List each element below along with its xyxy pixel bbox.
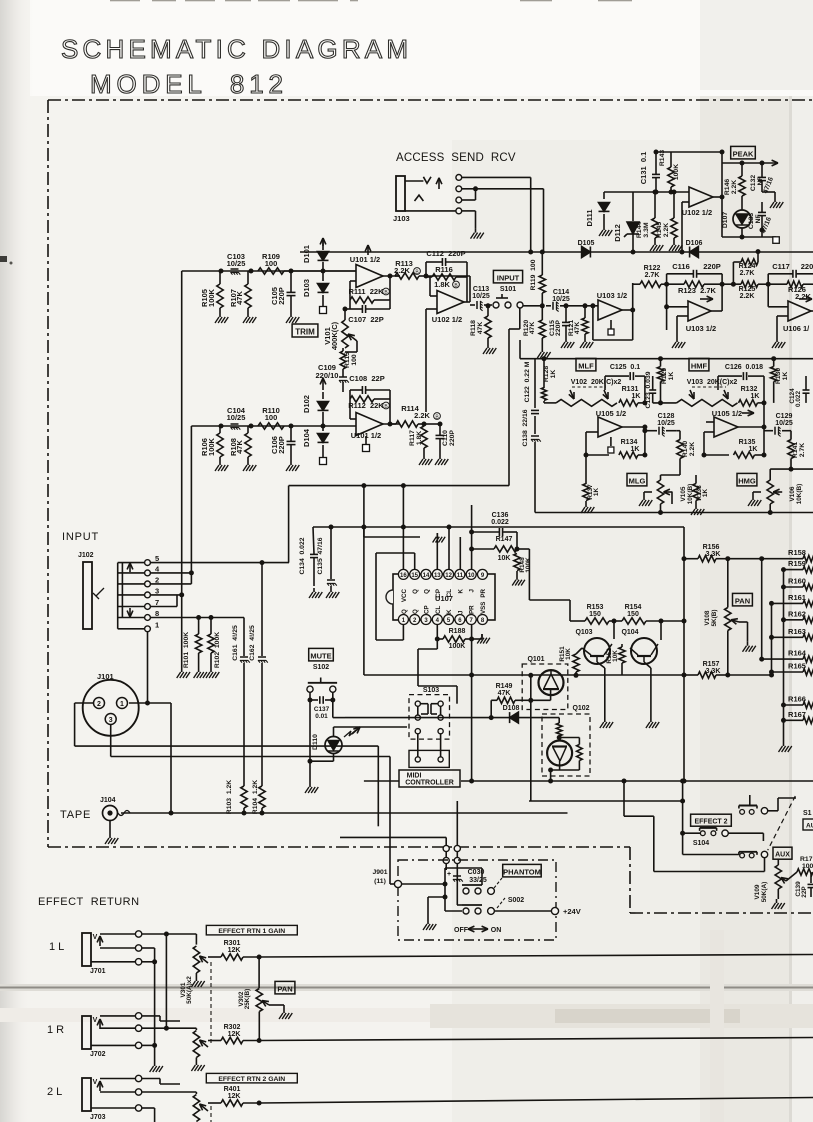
wire bus y781	[364, 780, 399, 782]
svg-text:C131 0.1: C131 0.1	[639, 152, 648, 185]
wire U103B output loop	[711, 310, 722, 312]
jack J102 terminals	[118, 562, 145, 564]
svg-text:S002: S002	[508, 897, 524, 904]
svg-text:CL: CL	[435, 606, 442, 614]
wire S101 to R120	[523, 305, 542, 307]
svg-text:R153: R153	[587, 604, 604, 611]
wire J102 pin4	[150, 572, 191, 574]
ground J103	[475, 229, 477, 233]
ground phantom	[427, 920, 429, 924]
svg-text:EFFECT RTN 1 GAIN: EFFECT RTN 1 GAIN	[218, 928, 285, 935]
wire effect rail corner to aux bar	[683, 854, 739, 856]
svg-text:C125 0.1: C125 0.1	[610, 364, 640, 371]
svg-text:AUX: AUX	[775, 852, 790, 859]
svg-text:1.8K: 1.8K	[434, 280, 450, 289]
svg-text:V102 20K(C)x2: V102 20K(C)x2	[571, 379, 622, 386]
label box MLF	[576, 358, 596, 371]
svg-text:Q: Q	[401, 609, 408, 614]
svg-text:R157: R157	[703, 661, 720, 668]
wire pin7 rail to y781	[471, 675, 473, 781]
phantom dashed enclosure	[398, 860, 556, 940]
svg-text:2.2K: 2.2K	[663, 223, 670, 237]
svg-text:10K: 10K	[565, 648, 572, 660]
wire pan rail	[727, 559, 729, 608]
svg-text:Q103: Q103	[575, 629, 592, 636]
svg-text:220P: 220P	[277, 287, 286, 305]
svg-text:R140: R140	[682, 441, 689, 457]
ground R138	[695, 505, 697, 509]
xlr connector J101	[83, 680, 139, 736]
svg-text:220P: 220P	[449, 430, 456, 446]
wires J702 left stubs	[100, 1015, 136, 1017]
ground C135	[330, 588, 332, 592]
svg-text:V106: V106	[789, 486, 796, 501]
svg-text:C112 220P: C112 220P	[426, 249, 465, 258]
svg-text:R125: R125	[739, 286, 756, 293]
svg-text:S102: S102	[313, 664, 329, 671]
svg-text:S1: S1	[803, 810, 812, 817]
svg-text:EFFECT RETURN: EFFECT RETURN	[38, 896, 140, 908]
svg-text:13: 13	[434, 573, 441, 579]
svg-text:220/10: 220/10	[316, 371, 339, 380]
svg-text:Q101: Q101	[527, 656, 544, 663]
wire rail x530 bus to D109 row	[530, 675, 532, 801]
svg-text:R301: R301	[224, 940, 241, 947]
svg-text:R101 100K: R101 100K	[183, 632, 190, 668]
svg-text:10/25: 10/25	[552, 296, 570, 303]
svg-text:2.7K: 2.7K	[645, 272, 660, 279]
switch S103 upper contacts	[417, 704, 419, 718]
ground V302	[283, 1009, 285, 1013]
wire peak top rail	[656, 151, 722, 153]
top scan dashes	[110, 0, 140, 1]
wires J701	[142, 933, 197, 935]
potentiometer V102 gang	[556, 400, 617, 407]
left edge mark	[0, 256, 7, 262]
svg-text:150: 150	[627, 611, 639, 618]
switch effect2 upper	[739, 805, 757, 807]
dashed gang line V102	[572, 386, 606, 388]
bottom right blotch band	[430, 1004, 813, 1028]
svg-text:100K: 100K	[525, 557, 532, 573]
svg-text:C107 22P: C107 22P	[348, 315, 383, 324]
svg-text:R135: R135	[739, 439, 756, 446]
svg-text:D108: D108	[503, 705, 520, 712]
svg-text:5K(B): 5K(B)	[711, 609, 718, 626]
ground U103B	[677, 315, 688, 317]
svg-text:C136: C136	[492, 512, 509, 519]
wire effect rtn 1 R out	[259, 1038, 813, 1041]
svg-text:12K: 12K	[228, 1093, 241, 1100]
wire y675 to pan rail	[683, 527, 685, 781]
svg-text:400K(C): 400K(C)	[330, 321, 339, 350]
jack J703	[82, 1078, 91, 1111]
wire eq bottom rail y513	[535, 512, 813, 514]
wire x363 drop	[363, 527, 365, 675]
svg-text:R188: R188	[449, 628, 466, 635]
svg-text:MUTE: MUTE	[310, 651, 331, 660]
wires J703	[142, 1078, 160, 1080]
label box PAN	[733, 593, 753, 606]
svg-text:8: 8	[155, 609, 159, 618]
wire U102A to S101	[469, 276, 471, 302]
svg-text:22P: 22P	[801, 886, 808, 898]
svg-text:C122 0.22 M: C122 0.22 M	[524, 361, 531, 402]
op-amp U101 1/2 (B)	[356, 413, 383, 436]
svg-text:100K: 100K	[207, 288, 216, 307]
wire effect rtn 2 L out	[259, 1098, 813, 1104]
ground under R108	[247, 461, 249, 465]
dashed gang V401	[210, 1106, 212, 1122]
svg-text:MIDI: MIDI	[407, 773, 422, 780]
wire pin2 drop to y826	[377, 746, 379, 826]
svg-text:2.2K: 2.2K	[414, 411, 430, 420]
wires J702	[142, 1015, 160, 1017]
svg-text:HMG: HMG	[738, 476, 756, 485]
jack J702 terminals	[135, 1013, 141, 1019]
terminal peak out	[773, 237, 780, 244]
svg-text:R17: R17	[800, 856, 813, 863]
svg-text:OFF: OFF	[454, 927, 469, 934]
label box MLG	[627, 473, 647, 486]
node D101 bus	[321, 269, 326, 274]
svg-text:K: K	[457, 588, 464, 593]
svg-text:33/25: 33/25	[469, 877, 487, 884]
svg-text:D111: D111	[585, 209, 594, 226]
wire peak out arrow	[722, 162, 758, 164]
wire logic top bus y527	[313, 526, 684, 528]
wire S101 return to input rail	[289, 485, 509, 487]
svg-text:+24V: +24V	[563, 907, 581, 916]
svg-text:CP: CP	[435, 589, 442, 598]
svg-text:2.2K: 2.2K	[689, 442, 696, 456]
jack J103 sleeve	[396, 176, 405, 211]
ground left rail	[154, 1062, 156, 1066]
wire V101 wiper loop	[356, 341, 358, 352]
svg-text:AU: AU	[806, 823, 813, 830]
svg-text:2: 2	[97, 701, 101, 708]
svg-text:MODEL 812: MODEL 812	[90, 69, 283, 99]
wire pin3 rail to ground	[181, 595, 183, 668]
svg-text:0.022: 0.022	[795, 391, 802, 407]
wire input top bus	[182, 270, 316, 272]
ground ladder	[783, 742, 785, 746]
wire U105A fb	[586, 431, 598, 433]
svg-text:0.01: 0.01	[315, 713, 328, 720]
wire R153 node to Q103	[613, 621, 615, 639]
svg-text:U106 1/: U106 1/	[783, 324, 810, 333]
svg-text:10/25: 10/25	[227, 259, 246, 268]
ladder rail B	[771, 603, 773, 676]
svg-text:R118: R118	[470, 320, 477, 336]
ground under C106	[290, 461, 292, 465]
svg-text:100: 100	[265, 259, 278, 268]
svg-text:Q: Q	[424, 589, 431, 594]
svg-text:Q104: Q104	[621, 629, 638, 636]
svg-text:V: V	[93, 1079, 98, 1086]
switch S101	[493, 302, 499, 308]
svg-text:R102 100K: R102 100K	[214, 632, 221, 668]
svg-text:D105: D105	[578, 240, 595, 247]
wire peak node line y192	[604, 191, 689, 193]
svg-text:1 L: 1 L	[49, 941, 64, 953]
svg-text:J103: J103	[393, 214, 410, 223]
svg-text:PR: PR	[469, 605, 476, 614]
svg-text:V109: V109	[754, 884, 761, 899]
svg-text:R122: R122	[644, 265, 661, 272]
svg-text:1: 1	[155, 620, 159, 629]
ic U107 bottom pins	[398, 615, 408, 625]
wire J103 third contact	[462, 199, 476, 201]
jack J102 arrow down	[129, 608, 131, 617]
wire J102 pin2	[150, 583, 191, 585]
svg-text:220P: 220P	[703, 262, 721, 271]
wire J102 pin7	[150, 606, 177, 608]
svg-text:R149: R149	[496, 683, 513, 690]
wire pan pot bottom	[727, 631, 729, 676]
svg-text:R124: R124	[739, 263, 756, 270]
ic U107 top pins	[398, 569, 408, 579]
wire q upper rail	[569, 600, 571, 621]
svg-text:TAPE: TAPE	[60, 809, 91, 821]
ground under R117	[423, 455, 425, 459]
svg-text:C116: C116	[672, 262, 690, 271]
svg-text:J102: J102	[78, 552, 94, 559]
svg-text:C117: C117	[772, 262, 790, 271]
svg-text:7: 7	[155, 598, 159, 607]
ground R121	[584, 338, 586, 342]
svg-text:J702: J702	[90, 1051, 106, 1058]
svg-text:R144: R144	[636, 222, 643, 238]
svg-text:2.2K: 2.2K	[740, 293, 755, 300]
dash-dot border top	[48, 99, 813, 101]
wire eq mid rail y358	[520, 358, 813, 360]
svg-text:V103 20K(C)x2: V103 20K(C)x2	[687, 379, 738, 386]
ic U107 body	[393, 574, 495, 620]
svg-text:R146: R146	[724, 179, 731, 195]
svg-text:C162 4!/25: C162 4!/25	[249, 625, 256, 661]
wire effect rail vertical	[682, 781, 684, 855]
svg-text:(11): (11)	[374, 878, 386, 885]
wire U103B minus	[667, 306, 688, 308]
svg-text:100K: 100K	[207, 437, 216, 456]
label box EFFECT 2	[691, 814, 732, 826]
svg-text:ACCESS SEND RCV: ACCESS SEND RCV	[396, 152, 516, 164]
svg-text:220P: 220P	[555, 320, 562, 336]
svg-text:S101: S101	[500, 286, 516, 293]
wire second input rail	[190, 426, 192, 573]
wire U103A up to R122	[632, 283, 634, 310]
op-amp U102 1/2 (A)	[437, 291, 464, 314]
wire mute bus	[345, 717, 490, 719]
svg-text:1K: 1K	[782, 372, 789, 381]
svg-text:1K: 1K	[631, 446, 640, 453]
wires U107 pins up	[402, 527, 404, 569]
svg-text:C108 22P: C108 22P	[349, 374, 384, 383]
fader V401	[195, 1092, 197, 1094]
svg-text:C133: C133	[748, 213, 755, 229]
svg-text:D101: D101	[302, 245, 311, 263]
terminal below U101B	[363, 445, 370, 452]
ground under R106	[219, 461, 221, 465]
svg-text:C129: C129	[776, 413, 793, 420]
wire input rail x288	[288, 486, 290, 563]
svg-text:V: V	[93, 934, 98, 941]
label box HMG	[737, 473, 757, 486]
resistor Q102 base	[556, 723, 562, 736]
wire eq to logic verticals	[363, 486, 365, 527]
svg-text:R145: R145	[656, 222, 663, 238]
svg-text:R401: R401	[224, 1086, 241, 1093]
wire pin7 down	[471, 639, 473, 675]
feedback loop U103A	[592, 306, 594, 340]
svg-text:C128: C128	[658, 413, 675, 420]
ground R101	[198, 668, 200, 672]
switch aux	[739, 851, 757, 853]
ladder rail C	[783, 570, 785, 742]
ground R144	[654, 241, 656, 245]
wires U107 pins up right	[448, 527, 450, 569]
svg-text:11: 11	[457, 573, 464, 579]
wire R157 row to ladder	[728, 674, 772, 676]
wire D109 row to effect rail	[529, 800, 683, 802]
wire mute out to bus	[332, 700, 334, 718]
svg-text:D106: D106	[686, 240, 703, 247]
jack J702	[82, 1016, 91, 1049]
svg-text:U105 1/2: U105 1/2	[596, 409, 626, 418]
wire U106 output	[811, 310, 813, 312]
svg-text:J901: J901	[372, 869, 387, 876]
wire logic bus y675	[364, 674, 684, 676]
op-amp U102 1/2 (B)	[689, 187, 713, 207]
svg-text:10K: 10K	[612, 650, 619, 662]
svg-text:INPUT: INPUT	[497, 273, 520, 282]
led D110 arrow	[344, 730, 356, 737]
jack J103 ring contact	[415, 195, 424, 201]
switch S102	[307, 686, 313, 692]
svg-text:SCHEMATIC DIAGRAM: SCHEMATIC DIAGRAM	[61, 34, 408, 64]
node D102 bus	[321, 424, 326, 429]
wire tape out	[121, 812, 568, 814]
wire D110 anode	[334, 726, 408, 728]
svg-text:R117: R117	[409, 430, 416, 446]
ground mute	[309, 783, 311, 787]
wire Q104 emitter to ground	[644, 662, 651, 668]
svg-text:EFFECT RTN 2 GAIN: EFFECT RTN 2 GAIN	[218, 1076, 285, 1083]
right scan shadow band	[700, 0, 792, 1122]
svg-text:C126 0.018: C126 0.018	[725, 364, 763, 371]
wire U106 minus	[768, 306, 788, 308]
switch S104	[700, 827, 717, 829]
svg-text:VCC: VCC	[401, 588, 408, 602]
ground MLG pot	[643, 496, 645, 500]
svg-text:10K: 10K	[498, 555, 511, 562]
svg-text:Q: Q	[412, 589, 419, 594]
jack J102 tip arrow up	[129, 563, 131, 572]
wire phantom feeds	[340, 836, 446, 838]
svg-text:2 L: 2 L	[47, 1086, 62, 1098]
label box HMF	[689, 358, 709, 371]
ground R188	[481, 634, 483, 638]
svg-text:TRIM: TRIM	[295, 328, 315, 337]
svg-text:16: 16	[400, 573, 407, 579]
svg-text:14: 14	[423, 573, 430, 579]
wire R154 to Q104	[660, 621, 662, 640]
wire mute left rail	[309, 700, 311, 783]
dash-dot border bottom-right	[630, 912, 813, 914]
ground Q104	[650, 718, 652, 722]
ground Q103	[604, 718, 606, 722]
wire plus input	[682, 201, 689, 203]
svg-text:PR: PR	[480, 588, 487, 597]
wire J103 sleeve to ground	[405, 210, 456, 212]
wire main bus y252	[300, 251, 813, 253]
svg-text:C134 0.022: C134 0.022	[299, 537, 306, 574]
dash-dot border left	[47, 100, 49, 847]
svg-text:D104: D104	[302, 428, 311, 447]
svg-text:10/25: 10/25	[472, 293, 490, 300]
svg-text:R131: R131	[622, 386, 639, 393]
svg-text:220P: 220P	[277, 436, 286, 454]
ground R120	[541, 348, 543, 352]
node R113 out	[424, 274, 429, 279]
wire R156 row to ladder	[728, 558, 762, 560]
jack J701	[82, 933, 91, 966]
svg-text:V: V	[93, 1017, 98, 1024]
svg-text:U103 1/2: U103 1/2	[686, 324, 716, 333]
jack J102 ring squiggle	[93, 588, 104, 599]
svg-text:PEAK: PEAK	[733, 149, 754, 158]
svg-text:R132: R132	[741, 386, 758, 393]
switch phantom upper	[463, 888, 469, 894]
svg-text:EFFECT 2: EFFECT 2	[694, 819, 727, 826]
wire peak bottom rail	[722, 236, 776, 238]
svg-text:CP: CP	[424, 605, 431, 614]
ground R118	[487, 344, 489, 348]
arrow on C109 wire	[322, 378, 324, 390]
ground V301A	[195, 977, 197, 981]
ground J104	[109, 834, 111, 838]
ground pin3 rail	[181, 668, 183, 672]
jack J103 tip contact	[423, 177, 431, 184]
svg-text:10K(B): 10K(B)	[687, 484, 694, 505]
svg-text:U103 1/2: U103 1/2	[597, 291, 627, 300]
wire right column down	[770, 468, 813, 470]
svg-text:47K: 47K	[477, 322, 484, 335]
resistor R112 22K B	[350, 396, 374, 402]
svg-text:220: 220	[801, 262, 813, 271]
svg-text:100K: 100K	[449, 643, 466, 650]
wire xlr pin3 to J901	[110, 725, 112, 757]
svg-text:10/25: 10/25	[775, 420, 793, 427]
svg-text:D102: D102	[302, 395, 311, 413]
svg-text:25K(B): 25K(B)	[244, 989, 251, 1010]
svg-text:2.7K: 2.7K	[799, 443, 806, 457]
wire R140 down to MLG	[679, 459, 681, 476]
label box EFFECT RTN 2 GAIN	[206, 1073, 297, 1083]
svg-text:2.7K: 2.7K	[740, 270, 755, 277]
svg-text:3.3M: 3.3M	[643, 222, 650, 237]
svg-text:PAN: PAN	[735, 596, 750, 605]
ground R145	[673, 241, 675, 245]
svg-text:50K(A)x2: 50K(A)x2	[186, 976, 193, 1004]
wire J102 pin1 down	[147, 632, 149, 703]
wire left input bus vertical	[181, 271, 183, 595]
dashed gang line V103	[692, 386, 726, 388]
ground C134	[313, 588, 315, 592]
svg-text:R119 100: R119 100	[530, 259, 537, 290]
wire J103 tip out	[462, 176, 531, 178]
